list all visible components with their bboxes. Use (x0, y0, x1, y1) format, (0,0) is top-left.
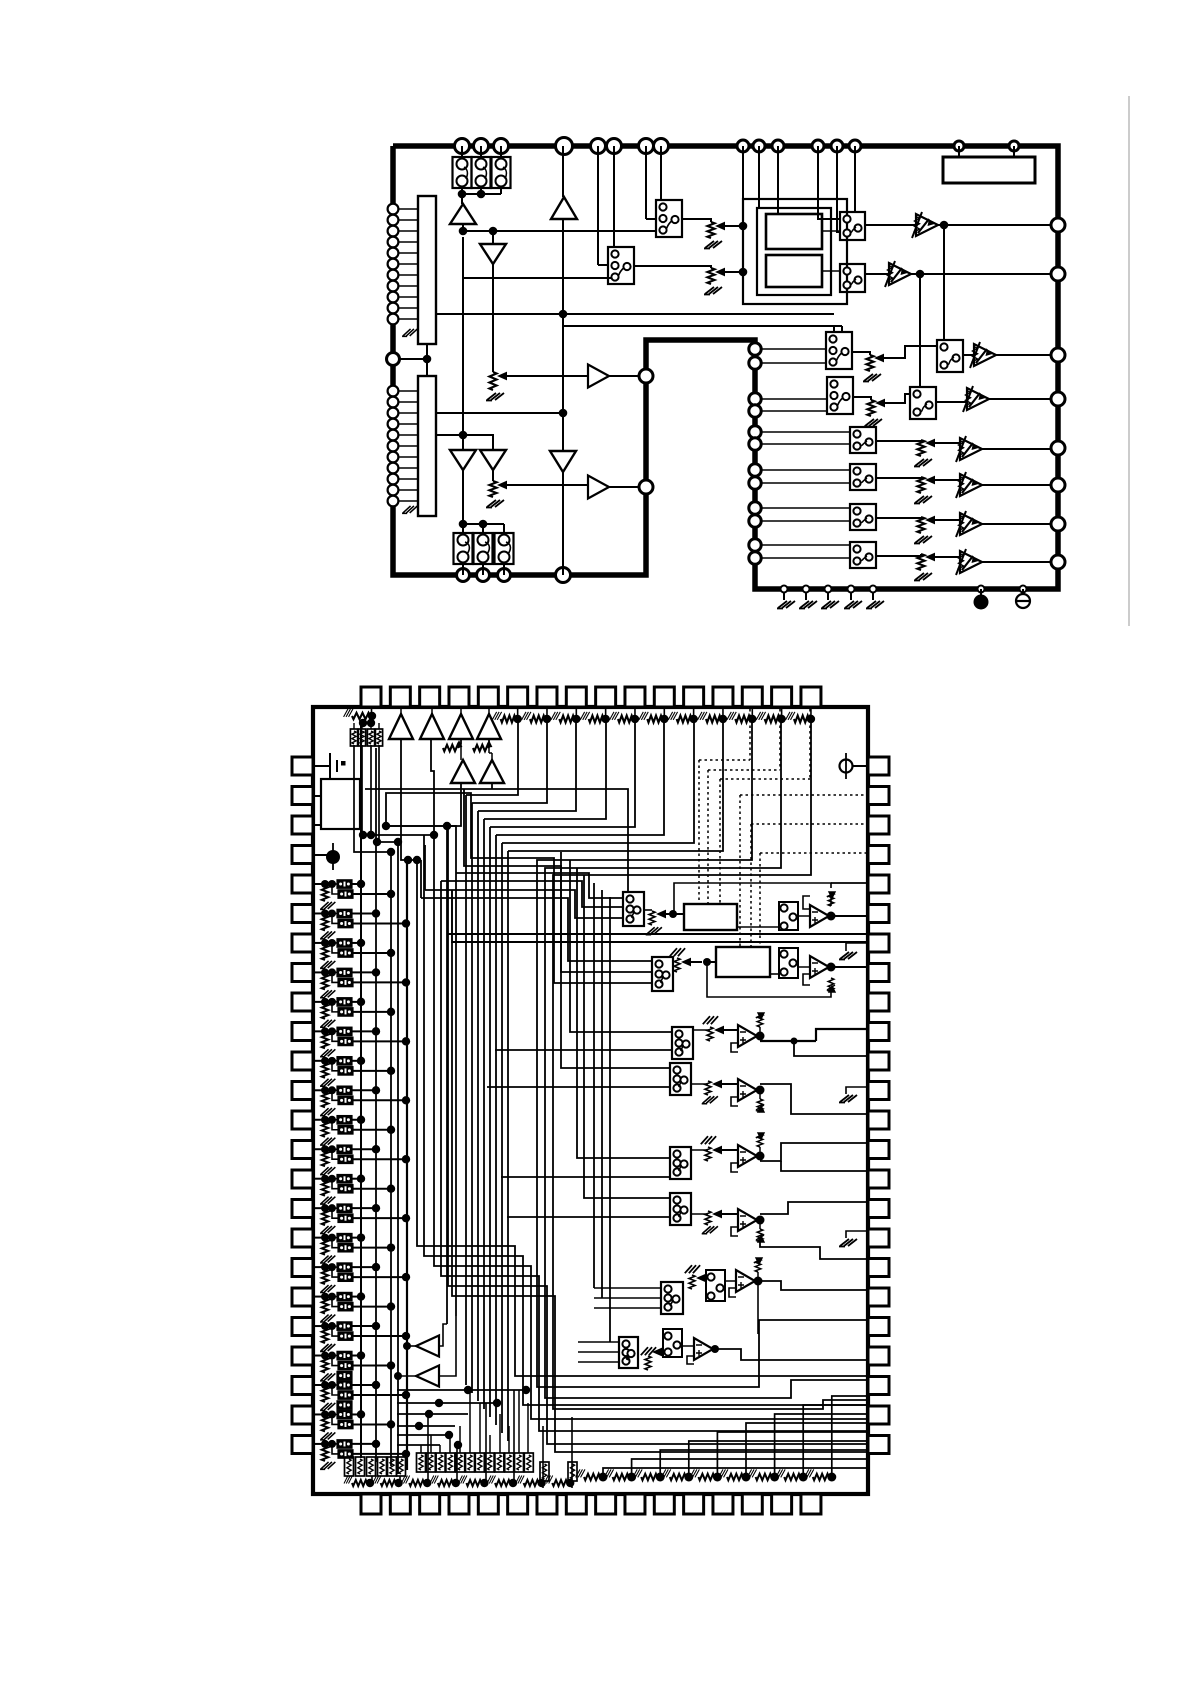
wire (456, 1445, 458, 1483)
wire (489, 827, 491, 1417)
junction (321, 1263, 329, 1271)
arrow (714, 1026, 724, 1035)
pin R4 (1051, 392, 1065, 406)
junction (543, 715, 551, 723)
wire (722, 707, 724, 719)
amp V2 (889, 263, 911, 285)
input row 4 wire (313, 971, 325, 973)
resistor LR17 (322, 1358, 328, 1373)
comp LC1b (338, 890, 353, 899)
wire (831, 882, 868, 884)
switch SC2 (670, 1063, 691, 1095)
switch SW-F (910, 387, 936, 419)
wire (488, 739, 490, 753)
pin QT13 (713, 687, 733, 707)
wire (353, 1040, 406, 1042)
resistor BH4 (438, 1480, 453, 1486)
wire (421, 898, 652, 961)
pin R8 (1051, 555, 1065, 569)
junction (357, 1116, 365, 1124)
pin QT16 (801, 687, 821, 707)
wire (324, 1414, 326, 1416)
pin QT7 (537, 687, 557, 707)
wire (707, 962, 831, 997)
pin L19 (388, 452, 399, 463)
arrow (712, 1080, 722, 1089)
wire (775, 1414, 868, 1477)
wire (715, 1349, 868, 1360)
comp LC14a (337, 1263, 352, 1272)
resistor TQ7 (677, 716, 692, 723)
pin T11 (772, 140, 784, 152)
wire (352, 1413, 361, 1415)
resistor BJ7 (756, 1474, 772, 1480)
wire (400, 707, 402, 714)
junction (423, 1479, 431, 1487)
switch SW-H (827, 377, 853, 414)
amp V4 (967, 388, 989, 410)
wire (324, 1356, 326, 1358)
wire (353, 893, 391, 895)
junction (489, 227, 498, 236)
junction (387, 1420, 395, 1428)
resistor FE2 (757, 1099, 763, 1112)
junction (359, 831, 367, 839)
pin N5 (749, 426, 761, 438)
resistor RB1 (350, 729, 357, 746)
junction (916, 270, 925, 279)
hatch (670, 948, 685, 956)
wire (456, 873, 623, 898)
opamp OP3 (738, 1025, 757, 1047)
block W2 (716, 947, 770, 977)
wire (545, 719, 868, 1398)
wire (760, 1040, 816, 1042)
wire (575, 707, 577, 719)
wire (707, 961, 716, 963)
junction (321, 1116, 329, 1124)
wire (332, 1385, 338, 1395)
wire (833, 326, 835, 332)
wire (831, 966, 868, 968)
comp LC11b (338, 1185, 353, 1194)
wire (324, 1444, 326, 1446)
wire (837, 146, 840, 232)
junction (425, 1410, 433, 1418)
junction (321, 1352, 329, 1360)
junction (387, 1302, 395, 1310)
buffer LT1 (416, 1336, 439, 1357)
wire (386, 825, 456, 827)
comp LC5b (338, 1008, 353, 1017)
junction (328, 1086, 336, 1094)
inverter A4 (450, 450, 476, 470)
pin T9 (737, 140, 749, 152)
junction (357, 939, 365, 947)
input row 6 wire (313, 1030, 325, 1032)
wire (634, 266, 711, 268)
pin B2 (477, 569, 490, 582)
resistor BJ3 (641, 1474, 657, 1480)
wire (424, 845, 426, 890)
junction (742, 1473, 751, 1482)
resistor SR2 (674, 958, 680, 972)
pin N11 (749, 539, 761, 551)
wire (352, 971, 376, 973)
resistor LR8 (322, 1092, 328, 1107)
pin R2 (1051, 267, 1065, 281)
hatch (703, 1016, 718, 1024)
resistor R4 (707, 268, 714, 284)
junction (387, 1067, 395, 1075)
input row 19 wire (313, 1413, 325, 1415)
switch SC4 (670, 1193, 691, 1225)
wire (762, 482, 850, 484)
pin QR5 (868, 875, 889, 893)
resistor SD1 (707, 1027, 713, 1041)
wire (463, 277, 614, 279)
resistor BJ6 (727, 1474, 743, 1480)
IC U2 outline (313, 707, 868, 1494)
junction (366, 1479, 374, 1487)
pin QR14 (868, 1141, 889, 1159)
wire (527, 1403, 529, 1453)
wire (431, 739, 434, 835)
resistor RB4 (375, 729, 382, 746)
resistor BM10 (505, 1453, 514, 1472)
pin L6 (388, 259, 399, 270)
wire (353, 1365, 391, 1367)
wire (353, 1188, 391, 1190)
wire (751, 707, 753, 719)
wire (762, 469, 850, 471)
junction (756, 1152, 765, 1161)
inverter A8 (550, 451, 576, 472)
pin QR2 (868, 787, 889, 805)
resistor RB3 (367, 729, 374, 746)
wire (725, 1280, 736, 1282)
junction (689, 715, 697, 723)
wire (759, 1090, 761, 1099)
junction (387, 1008, 395, 1016)
junction (493, 1399, 501, 1407)
pin L18 (388, 441, 399, 452)
wire (352, 1089, 376, 1091)
junction (321, 1086, 329, 1094)
wire (332, 1090, 338, 1100)
wire (762, 520, 850, 522)
wire (810, 707, 812, 719)
junction (321, 1204, 329, 1212)
junction (572, 715, 580, 723)
pin QT14 (742, 687, 762, 707)
junction (382, 822, 390, 830)
block Y-outer (743, 199, 847, 304)
pin QR8 (868, 964, 889, 982)
pin QL8 (292, 964, 313, 982)
resistor RB2 (358, 729, 365, 746)
dotted wire (760, 852, 866, 854)
wire (854, 146, 856, 212)
wire (332, 1267, 338, 1277)
resistor SD3 (705, 1147, 711, 1161)
resistor R1 (489, 372, 496, 390)
wire (332, 1414, 338, 1424)
wire (332, 1031, 338, 1041)
comp LC8b (338, 1096, 353, 1105)
wire (831, 915, 868, 917)
junction (367, 719, 375, 727)
junction (656, 1473, 665, 1482)
junction (321, 1293, 329, 1301)
pin QR22 (868, 1377, 889, 1395)
wire (546, 707, 548, 719)
resistor BM12 (524, 1453, 533, 1472)
buffer A3 (588, 365, 609, 388)
resistor FE4 (757, 1229, 763, 1242)
wire (352, 1296, 361, 1298)
junction (387, 1361, 395, 1369)
junction (321, 939, 329, 947)
arrow (925, 476, 935, 485)
pin QB1 (361, 1494, 381, 1514)
wire (757, 1272, 759, 1281)
battery BT1 (313, 765, 330, 767)
IC U1 outline (393, 146, 1058, 589)
junction (321, 1234, 329, 1242)
pin L23 (388, 496, 399, 507)
arrow (715, 268, 725, 277)
comp LC7b (338, 1067, 353, 1076)
wire (441, 881, 623, 907)
wire (760, 1143, 868, 1161)
junction (754, 1277, 763, 1286)
wire (352, 1355, 361, 1357)
wire (469, 1390, 471, 1453)
wire (760, 1237, 868, 1259)
wire (463, 523, 504, 525)
wire (370, 745, 372, 835)
junction (443, 822, 451, 830)
resistor BB2 (356, 1457, 365, 1476)
wire (439, 1324, 447, 1346)
wire (477, 811, 479, 1401)
resistor TQ10 (765, 716, 780, 723)
input row 10 wire (313, 1148, 325, 1150)
wire (371, 707, 373, 716)
wire (503, 564, 505, 575)
pin QR19 (868, 1288, 889, 1306)
resistor FE1 (757, 1014, 763, 1027)
wire (426, 344, 428, 376)
wire (485, 1403, 487, 1483)
junction (459, 227, 468, 236)
wire (353, 1217, 406, 1219)
junction (372, 1381, 380, 1389)
resistor BM6 (466, 1453, 475, 1472)
resistor LR1 (322, 886, 328, 901)
pin L13 (388, 386, 399, 397)
wire (996, 354, 1051, 356)
switch SW-I (850, 427, 876, 453)
wire (762, 348, 826, 350)
wire (352, 1060, 361, 1062)
wire (439, 1445, 441, 1453)
pin QL20 (292, 1318, 313, 1336)
junction (458, 190, 467, 199)
resistor BH6 (495, 1480, 510, 1486)
pin L9 (388, 292, 399, 303)
wire (663, 707, 665, 719)
wire (462, 224, 464, 231)
pin T5 (591, 139, 606, 154)
pin QT1 (361, 687, 381, 707)
wire (794, 1041, 868, 1056)
block Z1 (321, 779, 360, 829)
pin T6 (607, 139, 622, 154)
junction (328, 1027, 336, 1035)
pin M2 (639, 480, 653, 494)
pin L12 (387, 353, 400, 366)
resistor BM8 (485, 1453, 494, 1472)
resistor BB4 (378, 1457, 387, 1476)
junction (454, 1441, 462, 1449)
ground (402, 329, 417, 336)
wire (352, 1001, 361, 1003)
pin T12 (812, 140, 824, 152)
junction (387, 890, 395, 898)
resistor TR0 (352, 713, 370, 719)
pin N4 (749, 405, 761, 417)
pin QT12 (684, 687, 704, 707)
resistor SD4 (705, 1211, 711, 1225)
pin QL4 (292, 846, 313, 864)
wire (332, 913, 338, 923)
pin L16 (388, 419, 399, 430)
resistor R6 (867, 400, 874, 416)
pin QL18 (292, 1259, 313, 1277)
wire (324, 972, 326, 974)
wire (324, 943, 326, 945)
wire (484, 719, 606, 819)
pin QB7 (537, 1494, 557, 1514)
wire (762, 443, 850, 445)
junction (402, 1214, 410, 1222)
resistor BM3 (436, 1453, 445, 1472)
junction (328, 909, 336, 917)
resistor LR15 (322, 1299, 328, 1314)
dotted wire (749, 709, 751, 760)
pin QT11 (654, 687, 674, 707)
wire (876, 517, 921, 518)
wire (1013, 146, 1015, 157)
wire (822, 270, 840, 272)
substrate pin (978, 586, 985, 593)
junction (631, 715, 639, 723)
opamp OP6 (738, 1209, 757, 1231)
wire (982, 448, 1051, 450)
switch SW-K (850, 504, 876, 530)
wire (353, 1276, 406, 1278)
junction (387, 1243, 395, 1251)
resistor FR2 (828, 978, 834, 992)
resistor LR13 (322, 1240, 328, 1255)
input row 1 wire (313, 883, 325, 885)
junction (321, 1440, 329, 1448)
wire (386, 783, 461, 826)
wire (324, 1179, 326, 1181)
comp W2b (779, 948, 798, 978)
wire (865, 273, 889, 275)
wire (401, 739, 417, 860)
junction (328, 1145, 336, 1153)
pin N12 (749, 552, 761, 564)
pin N3 (749, 393, 761, 405)
wire (324, 1267, 326, 1269)
wire (441, 881, 868, 1431)
pin T14 (849, 140, 861, 152)
pin L17 (388, 430, 399, 441)
pin QR9 (868, 993, 889, 1011)
pin QB2 (390, 1494, 410, 1514)
wire (578, 1341, 619, 1343)
resistor LR4 (322, 974, 328, 989)
pin QB5 (478, 1494, 498, 1514)
junction (739, 222, 748, 231)
junction (537, 1479, 545, 1487)
wire (489, 1435, 491, 1453)
wire (762, 362, 826, 364)
wire (689, 1441, 868, 1477)
wire (613, 146, 615, 247)
arrow (875, 399, 885, 408)
pin L20 (388, 463, 399, 474)
resistor TQ5 (618, 716, 633, 723)
pin QB10 (625, 1494, 645, 1514)
junction (387, 1126, 395, 1134)
comp LC4b (338, 978, 353, 987)
wire (759, 1147, 761, 1156)
wire (781, 707, 783, 719)
comp LC2a (337, 909, 352, 918)
junction (719, 715, 727, 723)
junction (328, 1116, 336, 1124)
block Y-mid (757, 208, 831, 295)
wire (876, 477, 921, 478)
wire (447, 826, 456, 873)
junction (799, 1473, 808, 1482)
wire (603, 1468, 868, 1477)
resistor FE3 (757, 1134, 763, 1147)
wire (464, 789, 652, 972)
junction (328, 1352, 336, 1360)
comp LC15b (338, 1302, 353, 1311)
junction (372, 1322, 380, 1330)
hatch (641, 1347, 656, 1355)
wire (353, 981, 406, 983)
wire (500, 146, 502, 157)
junction (328, 880, 336, 888)
wire (758, 1281, 868, 1290)
wire (609, 375, 639, 377)
resistor BM1 (417, 1453, 426, 1472)
opamp OP5 (738, 1145, 757, 1167)
wire (760, 1084, 868, 1114)
wire (645, 146, 647, 219)
pin QB11 (654, 1494, 674, 1514)
wire (760, 1202, 868, 1214)
wire (501, 1176, 670, 1178)
